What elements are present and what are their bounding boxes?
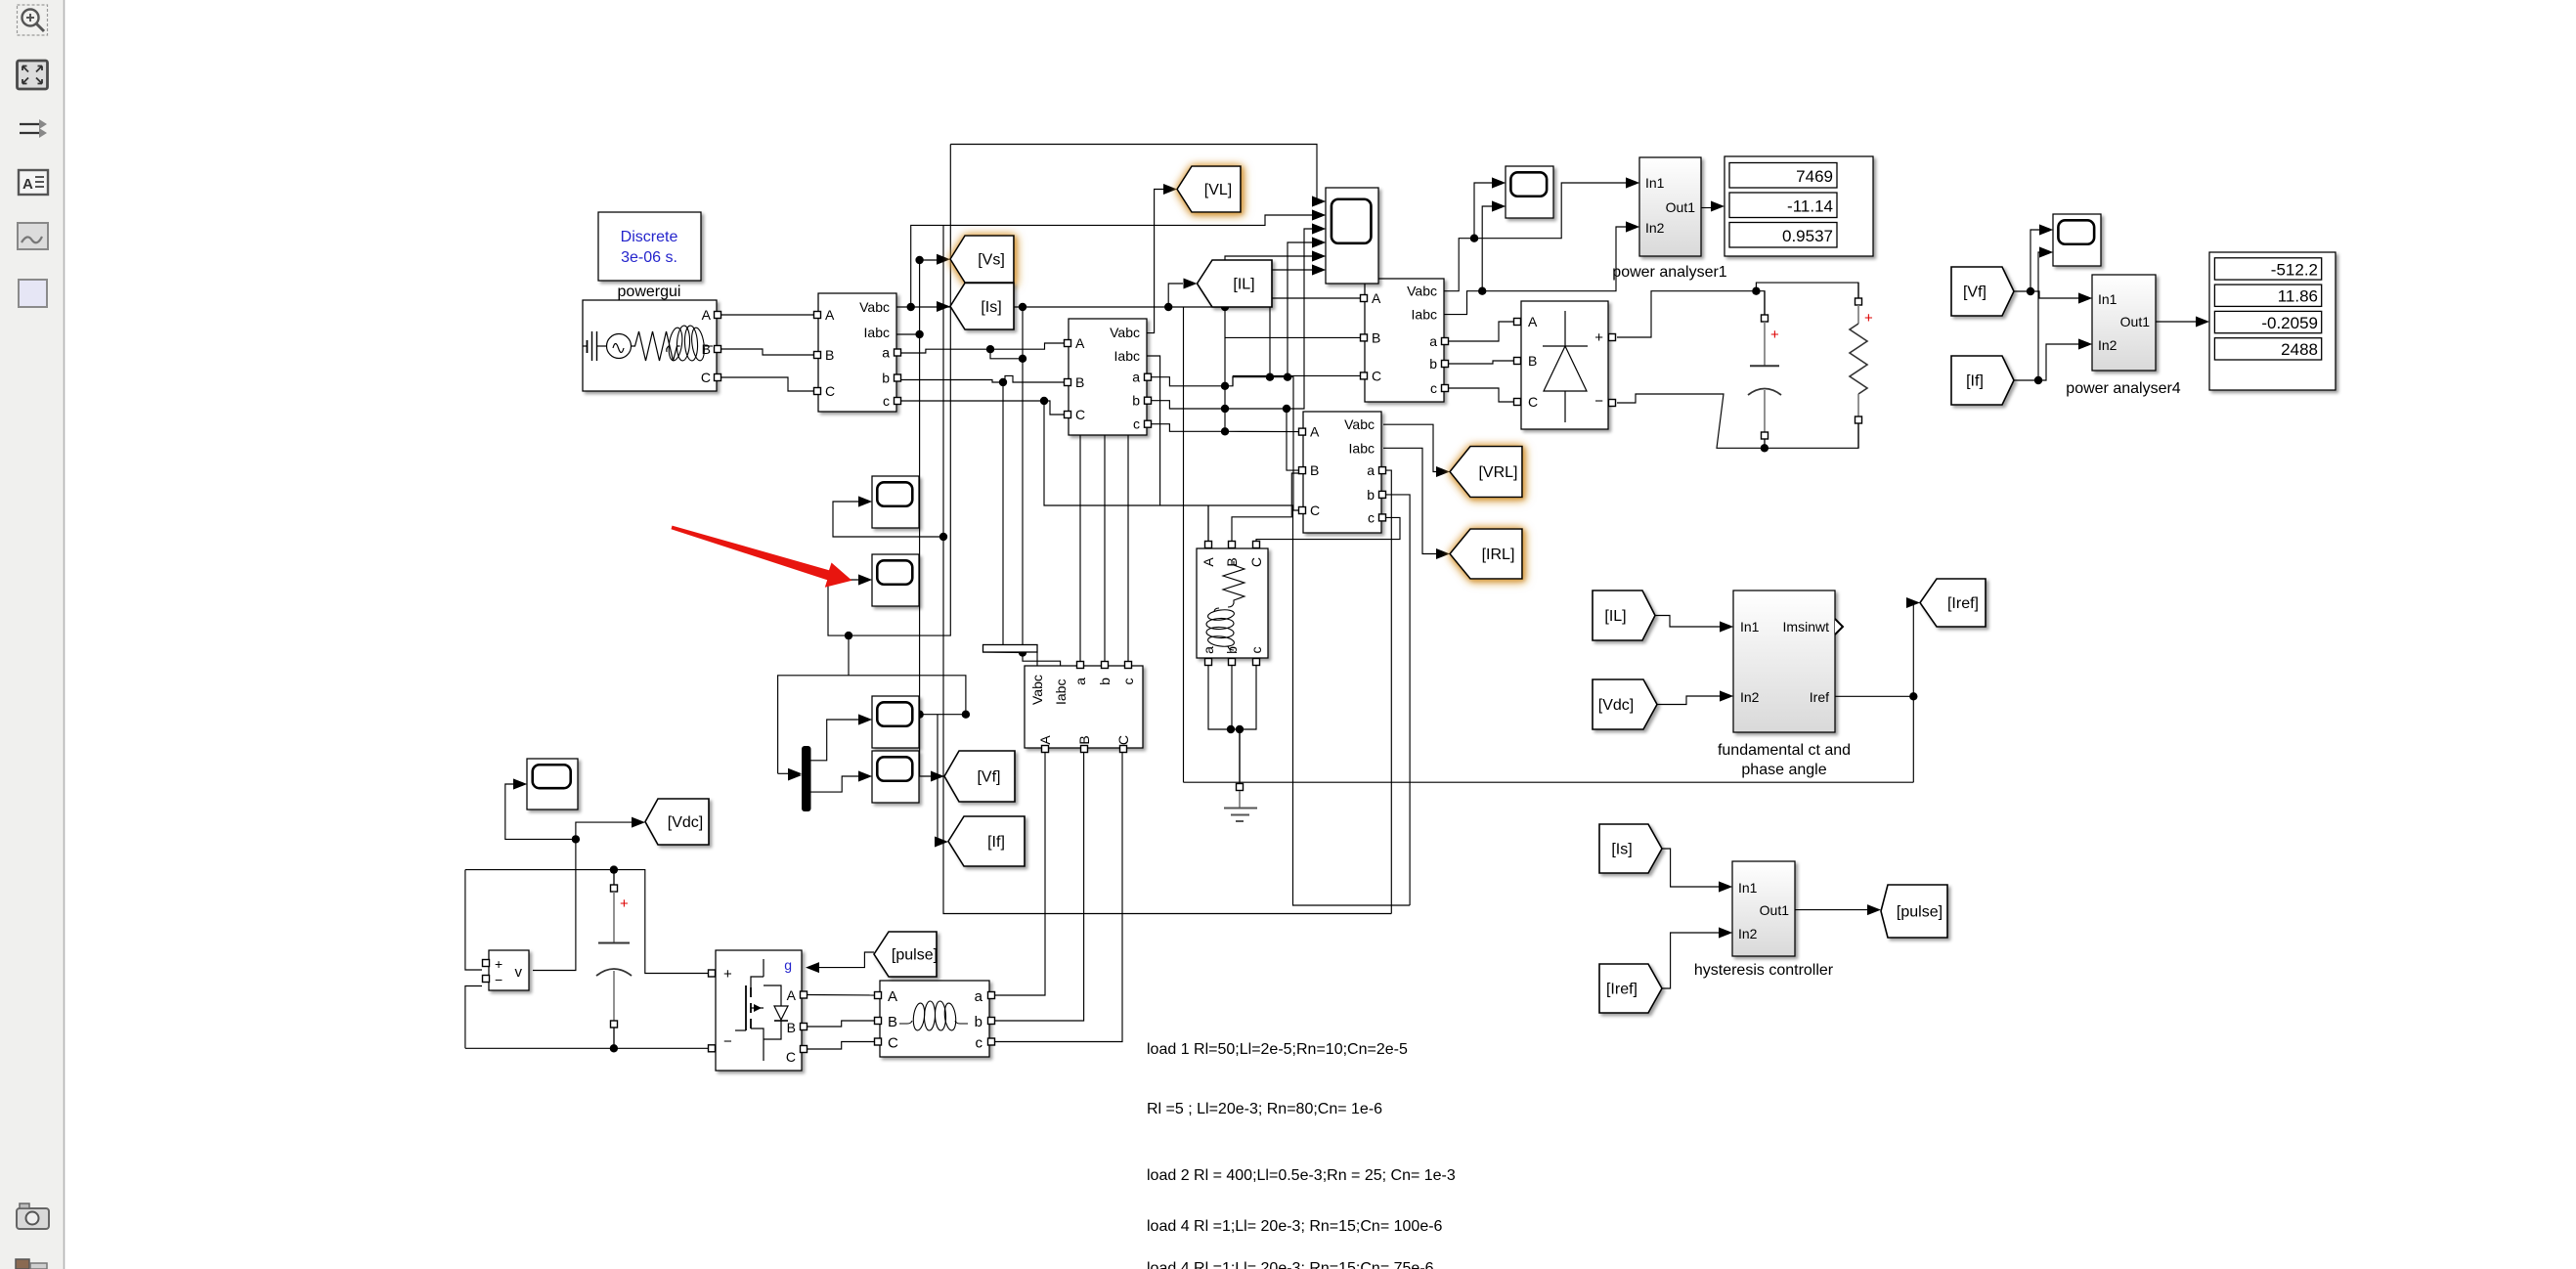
svg-text:B: B xyxy=(1528,353,1537,369)
wire B7 b up xyxy=(1104,409,1106,662)
wire VI3 Iabc to In2 xyxy=(1444,227,1626,315)
wire B7 B down xyxy=(995,753,1084,1021)
node dc plus xyxy=(1752,287,1760,295)
power analyser1 label xyxy=(1612,264,1727,281)
annotation load 4 xyxy=(1147,1218,1443,1235)
from tag IL xyxy=(1593,591,1655,640)
wire source C to VI1 C xyxy=(720,377,814,391)
three-phase V-I measurement 3 xyxy=(1361,279,1449,402)
svg-text:hysteresis controller: hysteresis controller xyxy=(1694,962,1834,979)
wire Vs riser xyxy=(920,260,937,334)
wire Vdc from to In2 xyxy=(1657,696,1720,705)
svg-text:c: c xyxy=(1368,509,1375,525)
svg-text:phase angle: phase angle xyxy=(1741,762,1826,778)
wire source B to VI1 B xyxy=(720,349,814,355)
toolbar signal arrows icon xyxy=(20,119,47,138)
power analyser4 label xyxy=(2066,380,2181,397)
svg-text:Rl =5 ; Ll=20e-3; Rn=80;Cn= 1e: Rl =5 ; Ll=20e-3; Rn=80;Cn= 1e-6 xyxy=(1147,1101,1382,1117)
svg-text:C: C xyxy=(1310,503,1320,518)
svg-text:Imsinwt: Imsinwt xyxy=(1783,619,1830,634)
scope 3 xyxy=(2039,214,2101,266)
wire VI1 a to VI2 A xyxy=(900,343,1065,353)
svg-text:A: A xyxy=(1075,335,1085,351)
wire B8 A up xyxy=(1207,505,1209,541)
svg-text:Iabc: Iabc xyxy=(864,325,890,340)
node Iabc branch xyxy=(915,330,923,338)
svg-text:c: c xyxy=(883,393,890,409)
svg-text:b: b xyxy=(1429,356,1437,372)
wire dc bottom xyxy=(465,1047,708,1049)
wire VI2 c jog xyxy=(1151,424,1225,432)
svg-text:power analyser1: power analyser1 xyxy=(1612,264,1727,281)
node mid 988 xyxy=(962,711,970,719)
wire VI3 Vabc up xyxy=(1444,239,1474,291)
scope 6 xyxy=(858,696,919,748)
wire bundle to VI3 C xyxy=(1233,374,1361,376)
scope 2 xyxy=(1492,166,1553,218)
svg-text:In2: In2 xyxy=(1740,689,1760,705)
svg-text:+: + xyxy=(1864,310,1873,327)
svg-text:+: + xyxy=(495,956,502,972)
svg-text:A: A xyxy=(1310,424,1320,440)
node Vf branch xyxy=(2027,287,2034,295)
wire to scope2 in2 xyxy=(1482,206,1492,291)
svg-text:Iabc: Iabc xyxy=(1412,307,1437,323)
three-phase V-I measurement 1 xyxy=(814,293,901,412)
svg-text:Vabc: Vabc xyxy=(1029,675,1045,705)
wire VI1 c to VI2 C xyxy=(900,401,1065,415)
wire VI1 Iabc out xyxy=(896,333,920,335)
node dc minus xyxy=(1761,444,1768,452)
node bus drop xyxy=(1019,303,1026,311)
node a branch xyxy=(986,345,994,353)
wire VI3 b to bridge B xyxy=(1448,361,1513,364)
three-phase V-I measurement 2 xyxy=(1065,319,1152,435)
wire VI4 a down xyxy=(1385,470,1391,913)
from tag pulse flipped xyxy=(874,932,938,977)
svg-text:[Iref]: [Iref] xyxy=(1947,595,1979,612)
wire Vf to scope3 xyxy=(2030,230,2039,291)
goto tag VRL xyxy=(1450,447,1522,498)
svg-text:A: A xyxy=(825,307,835,323)
thin resized block xyxy=(983,645,1038,653)
svg-text:[IL]: [IL] xyxy=(1233,277,1254,293)
from tag If xyxy=(1951,356,2014,405)
wire B9 A to B10 A xyxy=(808,994,874,997)
svg-text:A: A xyxy=(1528,314,1538,329)
wire Vf to In1 xyxy=(2030,291,2078,298)
wire bridge minus xyxy=(1617,394,1858,448)
node In2 branch xyxy=(1478,287,1486,295)
svg-text:Out1: Out1 xyxy=(2120,314,2151,329)
svg-text:c: c xyxy=(976,1035,983,1052)
wire PA4 out xyxy=(2156,321,2196,323)
wire scope1 in5 xyxy=(1288,242,1314,377)
svg-text:[If]: [If] xyxy=(1966,373,1984,390)
wire bundle to VI4 C xyxy=(1225,377,1299,510)
svg-text:power analyser4: power analyser4 xyxy=(2066,380,2181,397)
wire plus to resistor xyxy=(1756,283,1858,298)
node bus vs riser xyxy=(907,303,915,311)
voltage measurement Vdc block xyxy=(483,950,530,990)
svg-text:In1: In1 xyxy=(1645,175,1665,191)
svg-text:load 2 Rl = 400;Ll=0.5e-3;Rn =: load 2 Rl = 400;Ll=0.5e-3;Rn = 25; Cn= 1… xyxy=(1147,1167,1456,1184)
svg-text:Discrete: Discrete xyxy=(621,229,678,245)
svg-text:C: C xyxy=(1075,407,1085,422)
node in6 tap xyxy=(1266,373,1274,381)
svg-text:Iabc: Iabc xyxy=(1349,440,1375,456)
wire thin block left xyxy=(983,651,1024,654)
wire If to dot xyxy=(2014,379,2038,381)
node in5 tap xyxy=(1284,373,1291,381)
node b branch xyxy=(999,378,1007,386)
wire PA1 out to display xyxy=(1701,207,1711,209)
svg-text:A: A xyxy=(22,176,33,193)
from tag Vdc xyxy=(1593,679,1657,729)
wire If to scope3 xyxy=(2038,252,2039,380)
wire bundle to VI3 B xyxy=(1225,336,1361,338)
wire If feed xyxy=(935,715,938,842)
toolbar image icon xyxy=(18,223,48,249)
svg-text:C: C xyxy=(786,1049,796,1065)
three-phase V-I measurement 4 xyxy=(1299,412,1386,533)
wire VI1 Vabc bus xyxy=(896,306,1225,308)
scope 5 xyxy=(858,554,919,606)
svg-text:In1: In1 xyxy=(1740,619,1760,634)
wire demux feed xyxy=(778,772,788,774)
wire ground tap xyxy=(1239,729,1241,781)
display block 4 xyxy=(2209,252,2336,390)
wire pulse to g xyxy=(817,952,874,968)
svg-text:Out1: Out1 xyxy=(1760,902,1790,918)
demux block xyxy=(788,746,811,811)
display block 1 xyxy=(1725,156,1873,256)
svg-text:[VRL]: [VRL] xyxy=(1478,464,1517,481)
svg-text:Out1: Out1 xyxy=(1666,199,1696,215)
svg-text:+: + xyxy=(1594,329,1603,346)
node B8 ground b xyxy=(1236,725,1244,733)
wire source A to VI1 A xyxy=(720,314,814,316)
powergui block Discrete 3e-06 s. xyxy=(598,212,701,281)
node If branch xyxy=(2034,376,2042,384)
wire Iref return xyxy=(1184,781,1914,783)
node mid 944 xyxy=(915,711,923,719)
svg-text:C: C xyxy=(888,1035,898,1052)
svg-text:[pulse]: [pulse] xyxy=(1897,904,1943,921)
annotation load partial bottom xyxy=(1147,1260,1434,1269)
wire bridge plus xyxy=(1617,291,1765,337)
wire demux in xyxy=(778,676,966,774)
wire VI3 a to bridge A xyxy=(1448,322,1513,341)
wire dc bottom to v- xyxy=(465,986,482,1049)
svg-text:b: b xyxy=(1132,393,1140,409)
svg-text:[Vdc]: [Vdc] xyxy=(668,814,703,831)
wire demux out2 xyxy=(811,776,859,792)
wire scope1 in6 xyxy=(1270,270,1314,377)
wire scope1 in3 xyxy=(1287,229,1314,409)
svg-text:powergui: powergui xyxy=(618,284,681,300)
wire scope4 feed xyxy=(833,502,943,537)
svg-text:+: + xyxy=(1770,327,1779,343)
wire to scope2 in1 xyxy=(1474,183,1492,239)
node vmeter xyxy=(572,835,580,843)
goto tag If xyxy=(948,816,1025,866)
svg-text:a: a xyxy=(1072,678,1088,685)
svg-text:B: B xyxy=(702,341,711,357)
svg-text:2488: 2488 xyxy=(2281,340,2318,359)
annotation Rl=5 xyxy=(1147,1101,1382,1117)
svg-text:Vabc: Vabc xyxy=(1407,284,1437,299)
svg-text:a: a xyxy=(1429,333,1437,349)
wire VI4 Vabc to VRL xyxy=(1383,424,1436,471)
goto tag pulse xyxy=(1881,885,1947,938)
fundamental ct label xyxy=(1718,742,1851,778)
node cap top xyxy=(610,865,618,873)
from tag Is xyxy=(1599,824,1662,873)
svg-text:b: b xyxy=(882,371,890,386)
svg-text:−: − xyxy=(1594,393,1603,410)
wire VI3 c to bridge C xyxy=(1448,388,1513,402)
svg-text:-11.14: -11.14 xyxy=(1787,197,1833,216)
toolbar background xyxy=(0,0,65,1269)
node bundle 1 xyxy=(1221,382,1229,390)
wire VI1 b to VI2 B xyxy=(900,375,1065,382)
svg-text:B: B xyxy=(888,1014,897,1030)
svg-text:B: B xyxy=(1310,462,1319,478)
wire Iref out xyxy=(1835,603,1913,697)
ground xyxy=(1224,729,1257,821)
toolbar camera icon xyxy=(17,1203,49,1229)
svg-text:g: g xyxy=(784,957,792,973)
svg-text:[If]: [If] xyxy=(987,834,1005,851)
node bundle top xyxy=(1221,303,1229,311)
three-phase series RLC branch rotated xyxy=(1197,542,1268,666)
node B6 B tap xyxy=(1283,405,1290,413)
svg-text:B: B xyxy=(1372,329,1380,345)
scope 7 xyxy=(858,751,919,803)
svg-text:C: C xyxy=(825,383,835,399)
svg-text:A: A xyxy=(702,307,712,323)
svg-text:a: a xyxy=(1201,646,1216,654)
svg-text:Vabc: Vabc xyxy=(1344,416,1375,432)
svg-text:B: B xyxy=(787,1020,796,1035)
scope 8 xyxy=(513,759,578,810)
svg-text:Vabc: Vabc xyxy=(1110,325,1140,340)
universal bridge diode rectifier xyxy=(1514,301,1616,429)
svg-text:a: a xyxy=(1367,462,1375,478)
from tag Iref xyxy=(1599,964,1662,1013)
resistor R1 load xyxy=(1850,283,1873,448)
svg-text:In2: In2 xyxy=(1738,926,1758,941)
wire scope1 in2 chain xyxy=(911,215,1314,307)
svg-text:C: C xyxy=(1115,735,1131,745)
toolbar fit-view icon xyxy=(18,61,48,89)
toolbar zoom icon xyxy=(18,5,48,35)
node mid 868 xyxy=(845,632,852,639)
svg-text:a: a xyxy=(882,345,890,361)
toolbar area icon xyxy=(19,280,47,307)
capacitor C2 snubber xyxy=(1748,291,1781,449)
wire to PA1 In1 xyxy=(1474,183,1626,239)
node cap bottom xyxy=(610,1044,618,1052)
wire node a loop xyxy=(990,349,1023,359)
svg-text:-0.2059: -0.2059 xyxy=(2261,314,2318,332)
wire If to In2 xyxy=(2038,344,2078,380)
wire dc top to v+ xyxy=(465,870,482,970)
svg-text:A: A xyxy=(787,987,797,1003)
wire VL vertical xyxy=(1147,190,1163,333)
svg-text:[IL]: [IL] xyxy=(1604,608,1626,625)
svg-text:A: A xyxy=(1037,735,1053,745)
svg-text:[VL]: [VL] xyxy=(1204,182,1232,198)
svg-text:load 4 Rl =1;Ll= 20e-3; Rn=15;: load 4 Rl =1;Ll= 20e-3; Rn=15;Cn= 100e-6 xyxy=(1147,1218,1443,1235)
wire down from dot868 xyxy=(848,635,850,676)
wire bundle to VI4 B xyxy=(1225,409,1299,470)
svg-text:fundamental ct and: fundamental ct and xyxy=(1718,742,1851,759)
wire to scope8 xyxy=(505,784,576,839)
fundamental ct and phase angle block xyxy=(1720,591,1843,732)
svg-text:[IRL]: [IRL] xyxy=(1482,547,1515,563)
svg-text:[Vs]: [Vs] xyxy=(978,252,1005,269)
svg-text:B: B xyxy=(1075,374,1084,390)
svg-text:+: + xyxy=(620,896,629,912)
wire VI2 Iabc down xyxy=(1147,356,1160,505)
goto tag Vf xyxy=(944,751,1015,802)
svg-text:c: c xyxy=(1120,678,1136,685)
svg-text:A: A xyxy=(888,988,897,1005)
svg-text:c: c xyxy=(1248,647,1264,654)
wire scope1 in4 xyxy=(1225,256,1314,307)
power analyser1 block xyxy=(1626,157,1701,256)
goto tag IRL xyxy=(1450,529,1522,579)
svg-text:Vabc: Vabc xyxy=(859,299,890,315)
goto tag Vs xyxy=(950,236,1014,283)
svg-text:C: C xyxy=(1528,394,1538,410)
wire B8 a down xyxy=(1208,666,1256,729)
svg-text:C: C xyxy=(1248,557,1264,567)
three-phase source block xyxy=(583,300,721,391)
wire B9 C to B10 C xyxy=(808,1042,874,1050)
node thin block xyxy=(1019,648,1026,656)
capacitor C1 DC link xyxy=(596,870,632,1049)
wire node bus drop xyxy=(1023,307,1061,666)
wire scope1 in1 xyxy=(950,145,1318,202)
svg-text:load 4 Rl =1;Ll= 20e-3; Rn=15;: load 4 Rl =1;Ll= 20e-3; Rn=15;Cn= 75e-6 xyxy=(1147,1260,1434,1269)
svg-text:load 1 Rl=50;Ll=2e-5;Rn=10;Cn=: load 1 Rl=50;Ll=2e-5;Rn=10;Cn=2e-5 xyxy=(1147,1041,1408,1058)
goto tag Vdc xyxy=(645,799,709,845)
svg-text:c: c xyxy=(1133,416,1140,432)
svg-text:A: A xyxy=(1372,290,1381,306)
goto tag IL xyxy=(1198,260,1273,307)
svg-text:−: − xyxy=(723,1033,732,1050)
node Vs branch xyxy=(915,256,923,264)
wire bundle to VI4 A xyxy=(1225,430,1299,432)
wire VI4 c to B8 C xyxy=(1256,517,1400,541)
node bundle 3 xyxy=(1221,427,1229,435)
node Iref branch xyxy=(1909,692,1917,700)
node c branch xyxy=(1040,397,1048,405)
svg-text:In2: In2 xyxy=(2098,337,2118,353)
svg-text:a: a xyxy=(975,988,983,1005)
node IL tap xyxy=(1164,303,1172,311)
goto tag VL xyxy=(1177,166,1241,212)
wire B8 b down xyxy=(1231,666,1233,729)
svg-text:Iabc: Iabc xyxy=(1114,348,1140,364)
wire Iabc to Vf xyxy=(920,334,931,776)
svg-text:In1: In1 xyxy=(2098,291,2118,307)
wire demux out1 xyxy=(811,720,859,761)
svg-text:b: b xyxy=(1367,487,1375,503)
svg-text:[Iref]: [Iref] xyxy=(1606,982,1637,998)
goto tag Is xyxy=(950,284,1014,330)
svg-text:B: B xyxy=(1224,557,1240,566)
wire Is from to In1 xyxy=(1662,849,1719,887)
svg-text:[Vdc]: [Vdc] xyxy=(1598,697,1634,714)
svg-text:c: c xyxy=(1430,380,1437,396)
svg-text:[Vf]: [Vf] xyxy=(1963,284,1987,301)
svg-text:v: v xyxy=(515,964,523,981)
svg-text:C: C xyxy=(1372,368,1381,383)
wire thin to Vabc xyxy=(1036,652,1038,666)
svg-text:0.9537: 0.9537 xyxy=(1782,227,1833,245)
three-phase series RL branch xyxy=(875,981,995,1057)
wire loop bottom xyxy=(943,225,1391,913)
svg-text:Iref: Iref xyxy=(1810,689,1829,705)
svg-text:3e-06 s.: 3e-06 s. xyxy=(621,249,677,266)
svg-text:In2: In2 xyxy=(1645,220,1665,236)
wire B8 A drop xyxy=(1207,505,1209,541)
power analyser4 block xyxy=(2078,275,2156,371)
node bundle 2 xyxy=(1221,405,1229,413)
svg-text:b: b xyxy=(975,1014,982,1030)
wire bundle vertical xyxy=(1224,307,1226,431)
from tag Vf xyxy=(1951,267,2014,316)
IGBT converter block xyxy=(709,950,808,1071)
svg-text:[Is]: [Is] xyxy=(981,299,1001,316)
wire VI2 b jog xyxy=(1151,401,1225,409)
svg-text:Iabc: Iabc xyxy=(1053,679,1069,705)
toolbar annotation icon xyxy=(19,170,48,195)
wire VI3 C vertical xyxy=(1232,375,1234,385)
wire VI2 a jog xyxy=(1151,377,1225,386)
wire bundle to VI3 A xyxy=(1225,297,1361,299)
svg-text:[Is]: [Is] xyxy=(1611,842,1632,858)
wire arrowheads xyxy=(513,178,2209,974)
node a loop join xyxy=(1019,355,1026,363)
svg-text:7469: 7469 xyxy=(1796,167,1833,186)
toolbar bottom icon xyxy=(16,1259,47,1269)
red annotation arrow xyxy=(672,526,852,588)
wire node b down xyxy=(1002,382,1004,645)
goto tag Iref xyxy=(1920,579,1986,627)
wire v out up xyxy=(533,822,632,970)
wire IL from to In1 xyxy=(1655,616,1720,628)
hysteresis controller label xyxy=(1694,962,1834,979)
wire B8 B up xyxy=(1232,473,1299,541)
wire B9 B to B10 B xyxy=(808,1021,874,1027)
svg-text:−: − xyxy=(495,972,502,987)
svg-text:[Vf]: [Vf] xyxy=(977,769,1000,786)
svg-text:a: a xyxy=(1132,370,1140,385)
wire node c to B8A bus xyxy=(1044,401,1293,505)
powergui label xyxy=(618,284,681,300)
wire B7 A down xyxy=(995,753,1045,995)
svg-text:11.86: 11.86 xyxy=(2278,287,2318,306)
wire Iref from to In2 xyxy=(1662,933,1719,988)
wire Vf to dot xyxy=(2014,290,2030,292)
svg-text:B: B xyxy=(825,347,834,363)
wire dot988 left xyxy=(920,714,966,716)
